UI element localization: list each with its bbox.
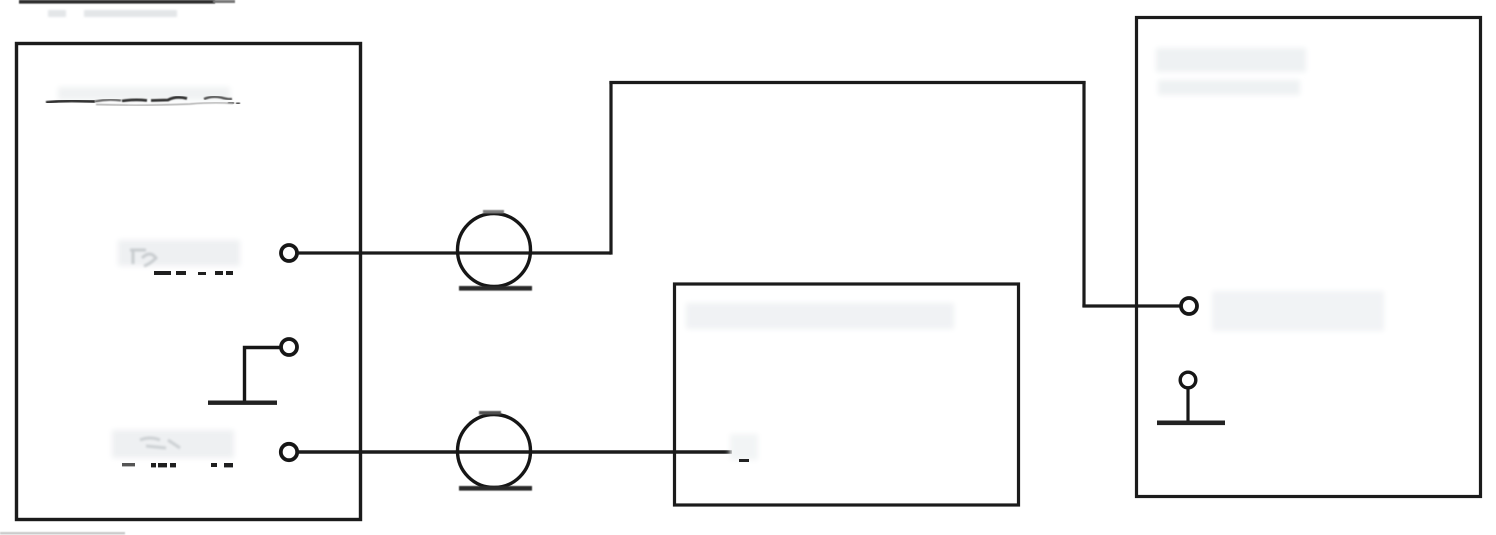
- wire W1: terminal 1 to riser: [297, 251, 611, 254]
- faded label inside U1 (struck-through text): [46, 87, 240, 105]
- scan artifact bottom-left: [0, 532, 125, 534]
- wire W2: riser up: [609, 81, 612, 255]
- terminal 2 on U1: [281, 444, 297, 460]
- equipment box U1 (signal generator, left): [17, 44, 361, 520]
- faded label inside U2: [686, 303, 954, 329]
- terminal 3 on U3: [1181, 298, 1197, 314]
- cable loop L2 on wire W6: [458, 415, 531, 488]
- wire W4: drop down: [1082, 81, 1085, 307]
- faded label at terminal 2: [112, 430, 234, 467]
- scan smear at L1 top: [483, 210, 504, 213]
- receiver box U3 (right): [1137, 18, 1481, 497]
- terminal 1 on U1: [281, 245, 297, 261]
- loop L1 base bar: [459, 286, 532, 291]
- dark dash row under label 1: [154, 271, 233, 275]
- loop L2 base bar: [459, 486, 532, 491]
- dash row under label 2: [122, 463, 233, 467]
- wire W5: into receiver terminal: [1082, 304, 1181, 307]
- scan smear at L2 top: [479, 411, 501, 415]
- ground symbol G2 inside U3: [1157, 372, 1225, 425]
- cable loop L1 on wire W1: [458, 214, 531, 287]
- faded mark at wire end inside U2: [730, 434, 758, 460]
- faded label at terminal 1: [118, 240, 240, 275]
- coupling box U2 (middle): [675, 284, 1019, 505]
- minus mark at wire end: [739, 459, 749, 462]
- wire W6: terminal 2 into coupling box: [297, 450, 732, 453]
- faded caption text top: [48, 10, 177, 17]
- scan artifact bar top-left: [19, 0, 235, 4]
- wire W3: top run: [609, 81, 1085, 84]
- faded label right of terminal 3: [1212, 291, 1384, 331]
- faded label lines inside U3: [1156, 48, 1306, 95]
- ground symbol G1 inside U1: [208, 339, 297, 405]
